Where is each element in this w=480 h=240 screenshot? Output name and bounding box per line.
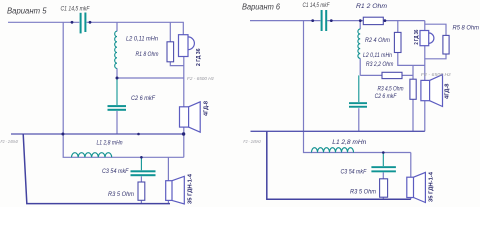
svg-text:Вариант 5: Вариант 5 [7, 6, 47, 16]
svg-text:Вариант 6: Вариант 6 [242, 2, 280, 12]
svg-text:R1 2 Ohm: R1 2 Ohm [356, 3, 387, 10]
svg-text:R3 5 Ohm: R3 5 Ohm [108, 191, 135, 198]
svg-text:C1 14,5 mkF: C1 14,5 mkF [61, 6, 91, 13]
svg-text:C2 6 mkF: C2 6 mkF [375, 93, 398, 100]
svg-text:L1 2,8 mHn: L1 2,8 mHn [97, 140, 123, 147]
svg-text:2 ГД 36: 2 ГД 36 [196, 48, 202, 66]
svg-text:F2 - 6500 Hz: F2 - 6500 Hz [421, 72, 452, 77]
svg-text:4ГД-8: 4ГД-8 [203, 101, 209, 116]
svg-text:R3 4,5 Ohm: R3 4,5 Ohm [378, 86, 404, 93]
svg-text:2 ГД 36: 2 ГД 36 [414, 29, 420, 44]
svg-text:F2 - 245Hz: F2 - 245Hz [243, 139, 261, 144]
svg-text:35 ГДН-1-4: 35 ГДН-1-4 [187, 174, 193, 204]
svg-text:4ГД-8: 4ГД-8 [444, 83, 450, 99]
svg-text:C3 54 mkF: C3 54 mkF [341, 169, 368, 176]
svg-text:R3 2,2 Ohm: R3 2,2 Ohm [366, 61, 394, 68]
svg-text:R2 4 Ohm: R2 4 Ohm [365, 37, 390, 44]
svg-text:R3 5 Ohm: R3 5 Ohm [350, 188, 376, 195]
svg-text:C3 54 mkF: C3 54 mkF [102, 168, 129, 175]
svg-text:35 ГДН-1-4: 35 ГДН-1-4 [429, 172, 435, 202]
svg-text:C1 14,5 mkF: C1 14,5 mkF [303, 2, 331, 9]
svg-text:R5 8 Ohm: R5 8 Ohm [453, 25, 480, 32]
svg-text:F2 - 6500 Hz: F2 - 6500 Hz [187, 76, 215, 81]
svg-text:C2 6 mkF: C2 6 mkF [131, 95, 156, 102]
svg-text:L2 0,11 mHn: L2 0,11 mHn [126, 35, 158, 42]
svg-text:L2 0,11 mHn: L2 0,11 mHn [363, 52, 392, 59]
svg-text:F2 - 245Hz: F2 - 245Hz [1, 139, 19, 144]
svg-text:L1 2,8 mHn: L1 2,8 mHn [332, 139, 367, 146]
svg-text:R1 8 Ohm: R1 8 Ohm [136, 51, 159, 58]
